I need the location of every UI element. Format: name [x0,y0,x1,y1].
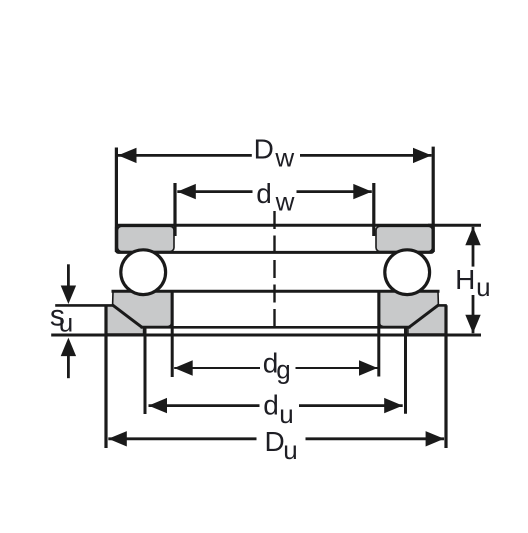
Du dimension line left segment [108,437,256,440]
dw right extension line [372,183,375,236]
Du right extension line / seating washer outer edge [444,305,447,448]
ball right [385,250,430,295]
shaft washer top left gray section [118,226,175,251]
svg-text:D: D [254,133,274,164]
dg right extension line [377,292,380,377]
svg-text:u: u [283,435,297,465]
dg dimension line left segment [174,367,260,369]
Hu dimension line lower segment [472,295,475,333]
housing washer right gray section [380,292,439,327]
dw left extension line [173,183,176,236]
seating washer left gray section [106,305,144,334]
du right arrow [384,398,403,413]
du dimension line left segment [149,404,260,407]
svg-text:d: d [263,389,279,420]
dg right arrow [359,360,378,375]
dw left arrow [177,184,196,199]
centerline dashed axis [273,211,275,331]
svg-text:w: w [274,142,294,172]
dw dimension line left segment [177,190,252,193]
housing washer left seat chamfer [112,305,143,328]
Du right arrow [426,431,445,446]
Hu top reference line [428,224,481,227]
housing washer top edge line [112,290,440,293]
Hu dimension line upper segment [472,227,475,267]
housing washer sphere seat line [141,326,411,329]
Dw right extension line [432,147,435,252]
ball left [121,250,166,295]
svg-text:g: g [276,355,290,385]
seating washer right gray section [408,305,446,334]
seating washer right top edge [438,304,447,307]
Dw left arrow [118,148,137,163]
dw right arrow [353,184,372,199]
Dw dimension line right segment [300,154,432,157]
svg-text:w: w [275,187,295,217]
du dimension line right segment [299,404,403,407]
su lower arrow pointing up [61,338,76,357]
svg-text:u: u [59,307,73,337]
svg-text:D: D [265,426,285,457]
svg-text:H: H [455,264,475,295]
Du dimension line right segment [306,437,445,440]
bottom face line spanning su to Hu references [51,334,481,337]
svg-text:u: u [279,399,293,429]
housing washer left gray section [113,292,172,327]
su upper arrow stem [67,264,70,288]
seating washer top surface line with su extension [55,304,113,307]
dw dimension line right segment [297,190,372,193]
shaft washer top right gray section [376,226,433,251]
du right extension line / seating washer bore edge [404,327,407,413]
su lower arrow stem [67,354,70,378]
Du left arrow [108,431,127,446]
Hu down arrow [465,315,480,334]
Dw right arrow [413,148,432,163]
dg left extension line [171,292,174,377]
svg-text:d: d [256,178,272,209]
svg-text:u: u [476,272,490,302]
Dw dimension line left segment [118,154,252,157]
dg dimension line right segment [296,367,378,369]
shaft washer outline [116,225,433,252]
Hu up arrow [465,227,480,246]
su upper arrow pointing down [61,286,76,305]
Du left extension line / seating washer outer edge [104,305,107,448]
du left arrow [149,398,168,413]
dg left arrow [174,360,193,375]
Dw left extension line [115,148,118,253]
housing washer right seat chamfer [409,305,440,328]
du left extension line / seating washer bore edge [144,327,147,414]
